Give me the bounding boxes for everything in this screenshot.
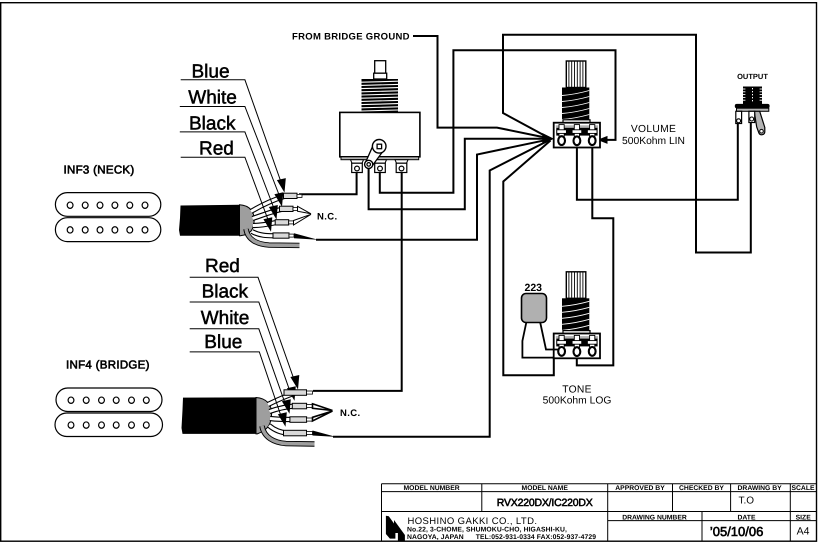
wire bridge pickup shield to volume left lug	[333, 140, 550, 437]
volume pot lug 2 (middle)	[574, 136, 581, 145]
bridge crimp terminal 4 (blue wire)	[284, 430, 313, 436]
bridge crimp terminal 1 (red wire)	[284, 390, 313, 396]
wire switch lug2 to volume right lug	[380, 50, 616, 193]
svg-text:HOSHINO GAKKI CO., LTD.: HOSHINO GAKKI CO., LTD.	[408, 516, 538, 527]
svg-text:NAGOYA, JAPAN TEL:052-931: NAGOYA, JAPAN TEL:052-931-0334 FAX:052-9…	[407, 534, 596, 541]
svg-text:RVX220DX/IC220DX: RVX220DX/IC220DX	[497, 497, 593, 509]
arrow Red to bridge crimp1	[290, 375, 299, 390]
svg-text:MODEL NUMBER: MODEL NUMBER	[404, 485, 460, 492]
arrow Red to crimp4	[263, 217, 272, 232]
bridge pickup lead wires	[268, 392, 297, 433]
volume pot knurled shaft	[566, 61, 586, 88]
arrow into volume right lug	[597, 136, 607, 144]
company logo	[386, 516, 405, 541]
svg-text:FROM BRIDGE GROUND: FROM BRIDGE GROUND	[292, 32, 410, 43]
svg-text:VOLUME: VOLUME	[631, 124, 676, 135]
label line Red (neck)	[181, 157, 269, 221]
svg-text:N.C.: N.C.	[317, 212, 338, 223]
svg-text:DRAWING BY: DRAWING BY	[738, 485, 783, 492]
svg-text:500Kohm LOG: 500Kohm LOG	[543, 396, 612, 407]
arrow Black to bridge crimp2	[287, 386, 296, 401]
svg-text:500Kohm LIN: 500Kohm LIN	[622, 136, 685, 147]
neck cable jacket	[179, 205, 241, 236]
output jack ground tab (angled)	[754, 111, 765, 134]
switch ground lever lug	[365, 140, 386, 169]
svg-text:INF4 (BRIDGE): INF4 (BRIDGE)	[66, 360, 150, 372]
svg-text:SCALE: SCALE	[791, 485, 815, 492]
pickup INF4 coil 2 pole pieces	[68, 422, 149, 428]
toggle switch SW body	[340, 112, 420, 156]
volume pot mounting tab	[563, 120, 590, 125]
svg-text:White: White	[201, 308, 250, 329]
volume pot threaded bushing	[562, 88, 589, 121]
neck crimp terminal 3 (black wire)	[275, 220, 294, 225]
tone pot mounting tab	[563, 331, 590, 336]
tone pot body	[554, 334, 600, 359]
bridge crimp terminal 2 (black wire)	[292, 403, 312, 409]
svg-text:DATE: DATE	[738, 514, 756, 521]
svg-text:INF3 (NECK): INF3 (NECK)	[64, 165, 135, 177]
wire volume right lug to tone middle lug	[577, 144, 614, 365]
svg-text:SIZE: SIZE	[796, 514, 812, 521]
pickup INF4 bridge coil 2	[55, 413, 163, 437]
neck crimp terminal 1 (blue wire)	[284, 193, 303, 198]
N.C. flag neck crimp3	[294, 214, 312, 225]
svg-text:’05/10/06: ’05/10/06	[710, 524, 764, 539]
arrow White to bridge crimp3	[282, 399, 291, 414]
pickup INF3 coil 1 pole pieces	[67, 202, 148, 208]
pickup INF3 neck coil 1	[55, 193, 160, 217]
output jack threaded sleeve	[743, 87, 762, 105]
neck pickup lead wires	[251, 196, 285, 236]
title block headers	[404, 485, 815, 521]
tone pot lug 2 (middle)	[574, 347, 581, 356]
volume pot body	[554, 123, 600, 148]
svg-text:Black: Black	[202, 282, 249, 303]
neck cable shield braid	[240, 205, 255, 236]
svg-text:OUTPUT: OUTPUT	[737, 72, 768, 81]
switch lug 2	[374, 160, 387, 173]
output jack flange	[735, 104, 770, 108]
toggle switch SW shaft	[374, 61, 387, 79]
svg-text:Blue: Blue	[204, 332, 242, 353]
toggle switch SW threaded bushing	[362, 79, 399, 112]
arrow Blue to crimp1	[277, 178, 286, 193]
arrow Blue to bridge crimp4	[278, 412, 287, 427]
title block table	[382, 484, 817, 541]
arrow White to crimp2	[274, 192, 283, 207]
label line Blue (neck)	[181, 80, 281, 182]
tone pot internal detail	[556, 335, 598, 347]
svg-text:T.O: T.O	[739, 496, 755, 507]
svg-text:No.22, 3-CHOME, SHUMOKU-CHO, H: No.22, 3-CHOME, SHUMOKU-CHO, HIGASHI-KU,	[407, 527, 567, 534]
capacitor C1 body	[522, 294, 547, 323]
tone pot lug 3 (right)	[589, 347, 596, 356]
svg-text:Red: Red	[205, 256, 240, 277]
bridge shield wedge to ground wire	[313, 431, 337, 437]
svg-text:White: White	[188, 88, 237, 109]
svg-text:MODEL NAME: MODEL NAME	[522, 485, 569, 492]
svg-text:CHECKED BY: CHECKED BY	[679, 485, 724, 492]
wire from bridge ground to volume pot left lug	[413, 36, 550, 139]
arrow Black to crimp3	[269, 205, 278, 220]
label line Black (bridge)	[190, 302, 290, 392]
neck crimp terminal 4 (bare/shield)	[273, 233, 294, 238]
N.C. flag neck crimp2	[298, 206, 312, 214]
wire switch lug3 to bridge pickup hot crimp	[313, 170, 402, 391]
wire neck pickup shield to volume left lug	[316, 139, 550, 240]
svg-text:Blue: Blue	[192, 62, 230, 83]
svg-text:N.C.: N.C.	[340, 408, 361, 419]
svg-text:APPROVED BY: APPROVED BY	[615, 485, 665, 492]
wire volume middle lug to output jack tip lug	[577, 122, 738, 200]
label line Red (bridge)	[190, 277, 294, 378]
output jack flange lower rim	[737, 108, 769, 111]
output jack sleeve lug	[749, 111, 755, 122]
pickup INF3 neck coil 2	[55, 218, 160, 242]
tone pot lug 1 (left)	[558, 347, 565, 356]
tone pot threaded bushing	[562, 298, 589, 331]
label line White (bridge)	[190, 329, 286, 405]
svg-text:DRAWING NUMBER: DRAWING NUMBER	[622, 514, 687, 521]
junction arrow at volume left lug	[542, 133, 554, 145]
output jack tip lug	[736, 111, 742, 123]
svg-text:A4: A4	[797, 526, 810, 538]
svg-text:223: 223	[525, 282, 543, 294]
svg-text:Red: Red	[199, 139, 234, 160]
volume pot internal detail	[556, 125, 598, 137]
switch lug 3	[395, 160, 408, 173]
svg-text:Black: Black	[189, 114, 236, 135]
tone pot knurled shaft	[566, 272, 586, 299]
neck crimp terminal 2 (white wire)	[280, 206, 299, 211]
wire volume left lug ground to tone pot case	[503, 141, 554, 376]
bridge crimp terminal 3 (white wire)	[290, 417, 313, 423]
N.C. flag bridge crimp3	[313, 411, 333, 421]
pickup INF4 bridge coil 1	[56, 388, 162, 412]
label line Black (neck)	[180, 132, 274, 209]
label line Blue (bridge)	[190, 352, 282, 418]
volume pot lug 1 (left)	[558, 136, 565, 145]
toggle switch SW base flange	[341, 157, 419, 160]
wire switch lug1 to neck pickup hot crimp	[299, 170, 357, 194]
svg-text:TONE: TONE	[562, 385, 592, 396]
capacitor C1 leads	[522, 322, 559, 358]
tone pot assembly	[554, 272, 600, 359]
N.C. flag bridge crimp2	[313, 404, 333, 411]
pickup INF4 coil 1 pole pieces	[68, 397, 149, 403]
bridge cable shield braid	[256, 398, 272, 434]
neck shield wedge to ground wire	[294, 233, 318, 240]
wire jack sleeve ground loop (volume left lug to output jack right lug)	[503, 35, 751, 253]
wire switch ground lug to volume left lug	[369, 139, 549, 210]
pickup INF3 coil 2 pole pieces	[67, 227, 148, 233]
bridge cable jacket	[182, 397, 258, 434]
volume pot lug 3 (right)	[589, 136, 596, 145]
label line White (neck)	[180, 107, 280, 197]
switch lug 1	[351, 160, 364, 173]
